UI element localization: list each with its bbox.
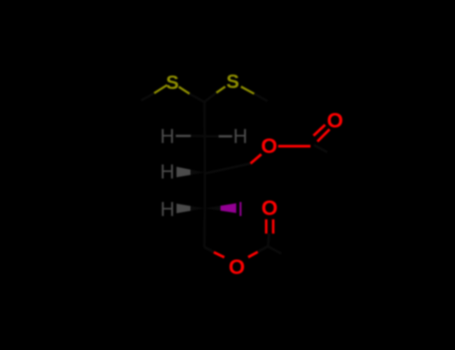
svg-text:H: H xyxy=(160,199,174,221)
wedge bond C3-H (hydrogen half) xyxy=(177,167,191,177)
double bond C8=O4 line 1 (oxygen half) xyxy=(265,219,268,233)
bond C2-H right (hydrogen half) xyxy=(219,135,233,137)
bond C6-O1 (oxygen half) xyxy=(251,154,262,163)
svg-text:H: H xyxy=(160,126,174,148)
bond S1-C1 (sulfur half) xyxy=(179,87,190,94)
bond C8-CH3 acetyl methyl (carbon, invisible) xyxy=(268,246,281,253)
bond O1-C7 carbonyl xyxy=(278,145,310,148)
bond S1-CH3 (sulfur half) xyxy=(154,85,167,93)
svg-text:O: O xyxy=(261,135,277,158)
double bond C7=O2 line 2 xyxy=(317,129,329,141)
bond S2-CH3 (methyl half, carbon colored) xyxy=(254,94,267,101)
bond C1-C2 (carbon, invisible) xyxy=(203,102,205,136)
bond C5-O3 (oxygen half) xyxy=(214,252,225,257)
double bond C8=O4 (carbon half, invisible) xyxy=(268,234,269,247)
wedge bond C4-I (iodine half) xyxy=(221,203,237,213)
svg-text:H: H xyxy=(160,162,174,184)
bond C2-C3 (carbon, invisible) xyxy=(204,136,206,172)
bond C3-O1 (carbon half) xyxy=(205,164,251,174)
svg-text:I: I xyxy=(238,199,244,221)
wedge bond C3-H (carbon half) xyxy=(191,170,205,175)
bond S1-C1 (carbon half) xyxy=(190,94,205,102)
bond S2-CH3 (sulfur half) xyxy=(241,87,254,94)
double bond C8=O4 line 2 (oxygen half) xyxy=(272,219,275,233)
wedge bond C4-I (carbon half) xyxy=(205,206,221,211)
bond C3-C4 (carbon, invisible) xyxy=(204,173,206,209)
double bond C7=O2 line 1 xyxy=(314,125,326,136)
bond C2-H left (carbon half) xyxy=(191,135,205,138)
svg-text:O: O xyxy=(261,197,277,220)
bond C4-C5 (carbon, invisible) xyxy=(203,208,206,247)
bond S1-CH3 (methyl half, carbon colored) xyxy=(141,93,154,100)
svg-text:O: O xyxy=(229,256,245,279)
bond S2-C1 (sulfur half) xyxy=(216,87,225,93)
wedge bond C4-H (hydrogen half) xyxy=(177,204,191,214)
bond C7-CH3 acetyl methyl (carbon, invisible) xyxy=(314,145,327,152)
bond C2-H right (carbon half) xyxy=(205,135,219,137)
wedge bond C4-H (carbon half) xyxy=(191,206,205,211)
svg-text:O: O xyxy=(327,110,343,133)
svg-text:S: S xyxy=(226,71,239,93)
svg-text:S: S xyxy=(166,72,179,94)
bond C5-O3 (carbon half) xyxy=(204,247,214,252)
bond O3-C8 (oxygen half) xyxy=(248,252,258,257)
bond O3-C8 (carbon half) xyxy=(258,246,268,252)
bond C2-H left (hydrogen half) xyxy=(176,135,191,137)
bond S2-C1 (carbon half) xyxy=(204,93,216,102)
svg-text:H: H xyxy=(233,126,247,148)
